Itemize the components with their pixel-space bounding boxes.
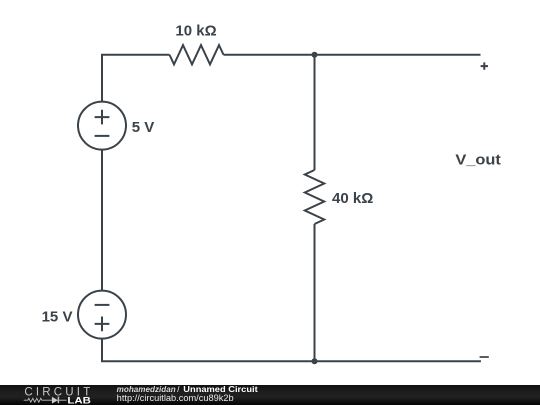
wire from R2 bottom to bottom junction	[314, 224, 316, 361]
footer logo resistor-diode glyph	[24, 397, 67, 404]
+ output terminal mark	[481, 62, 488, 69]
svg-text:15 V: 15 V	[42, 308, 73, 325]
resistor R1	[170, 45, 224, 64]
wire from V1 bottom to V2 top	[101, 150, 103, 291]
svg-text:10 kΩ: 10 kΩ	[175, 23, 216, 40]
footer bar	[0, 385, 540, 405]
svg-text:5 V: 5 V	[132, 119, 155, 136]
V2 plus sign	[95, 317, 110, 332]
svg-text:http://circuitlab.com/cu89k2b: http://circuitlab.com/cu89k2b	[117, 393, 234, 403]
voltage source V2 (15 V) circle	[78, 291, 126, 339]
svg-text:LAB: LAB	[67, 395, 91, 405]
wire from top junction down to resistor R2	[314, 55, 316, 170]
node junction bottom	[312, 358, 318, 364]
wire from R1 right to + output terminal	[224, 54, 481, 56]
resistor R2	[305, 170, 324, 224]
V1 minus sign	[95, 135, 110, 137]
V1 plus sign	[95, 110, 110, 125]
svg-text:40 kΩ: 40 kΩ	[332, 190, 373, 207]
V2 minus sign	[95, 304, 110, 306]
wire from V2 bottom along the bottom to - output terminal	[102, 339, 481, 362]
svg-text:V_out: V_out	[455, 152, 501, 169]
wire from V1 top to resistor R1 left	[102, 55, 170, 102]
- output terminal mark	[480, 356, 489, 358]
node junction top	[312, 52, 318, 58]
voltage source V1 (5 V) circle	[78, 102, 126, 150]
